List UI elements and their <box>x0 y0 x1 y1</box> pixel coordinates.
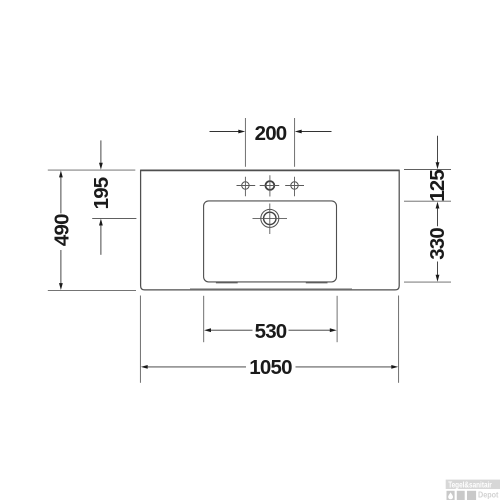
dim 200 extension line right <box>294 118 296 167</box>
dim 490 extension line top <box>48 169 136 171</box>
faucet hole middle crosshair <box>260 175 280 196</box>
watermark logo square 2 <box>457 491 465 500</box>
dim 1050 line left <box>147 366 246 368</box>
dim 490 line upper <box>60 176 62 213</box>
dim 195 upper arrow <box>99 163 103 170</box>
dim 1050 arrow right <box>391 365 398 369</box>
watermark logo square 3 <box>467 491 476 500</box>
drain crosshair <box>253 204 288 235</box>
dim 530 line left <box>211 329 253 331</box>
dim 530 line right <box>289 329 331 331</box>
dim 125/330 shared up arrow <box>436 202 440 209</box>
dim 530 extension line left <box>203 296 205 342</box>
dim 200 arrow right <box>295 130 302 134</box>
washbasin outer outline <box>141 170 400 290</box>
watermark logo band <box>446 480 500 489</box>
drain hole outer circle <box>261 209 279 227</box>
bottom edge inner double line <box>190 288 352 290</box>
dim 200 extension line left <box>244 118 246 167</box>
dim 490 arrow up <box>59 171 63 178</box>
svg-text:125: 125 <box>426 170 449 202</box>
svg-text:1050: 1050 <box>249 356 292 379</box>
dim 490 line lower <box>60 250 62 284</box>
dim 200 leader right <box>301 131 332 133</box>
dim 530 arrow left <box>204 328 211 332</box>
basin bottom ledge dash right <box>306 282 328 284</box>
dim 330 line upper <box>437 208 439 227</box>
dim 490 arrow down <box>59 283 63 290</box>
top edge thicker overlay <box>141 169 400 171</box>
right extension line basin bottom <box>404 281 451 283</box>
dim 1050 extension line right <box>398 296 400 383</box>
dim 125 upper arrow <box>436 162 440 169</box>
dim 125 upper arrow line <box>437 136 439 163</box>
svg-text:Depot: Depot <box>478 490 499 500</box>
faucet hole middle circle <box>266 181 275 190</box>
dim 330 down arrow <box>436 275 440 282</box>
dim 195 boundary line <box>92 218 136 220</box>
svg-text:200: 200 <box>255 122 287 145</box>
svg-text:330: 330 <box>426 228 449 260</box>
faucet hole right circle <box>291 182 298 189</box>
dim 530 extension line right <box>336 296 338 342</box>
dim 195 upper arrow line <box>100 140 102 163</box>
watermark logo square 1 <box>447 491 455 500</box>
dim 200 leader left <box>210 131 240 133</box>
dim 530 arrow right <box>330 328 337 332</box>
dim 195 lower arrow line <box>100 225 102 255</box>
dim 490 extension line bottom <box>48 289 136 291</box>
drain hole inner circle <box>264 212 276 224</box>
svg-text:490: 490 <box>51 214 74 246</box>
dim 330 line lower <box>437 262 439 277</box>
basin bottom ledge dash left <box>216 282 238 284</box>
right extension line basin top <box>404 200 451 202</box>
basin inner rectangle <box>204 201 337 282</box>
svg-text:530: 530 <box>255 320 287 343</box>
dim 200 arrow left <box>238 130 245 134</box>
svg-text:Tegel&sanitair: Tegel&sanitair <box>448 480 492 490</box>
dim 1050 extension line left <box>139 296 141 383</box>
dim 1050 arrow left <box>141 365 148 369</box>
svg-text:195: 195 <box>90 177 113 209</box>
faucet hole left circle <box>242 182 249 189</box>
watermark logo droplet <box>448 492 453 499</box>
right extension line top edge <box>404 169 451 171</box>
faucet hole right crosshair <box>285 177 304 197</box>
dim 195 lower arrow <box>99 219 103 226</box>
faucet hole left crosshair <box>237 177 256 197</box>
dim 1050 line right <box>296 366 393 368</box>
